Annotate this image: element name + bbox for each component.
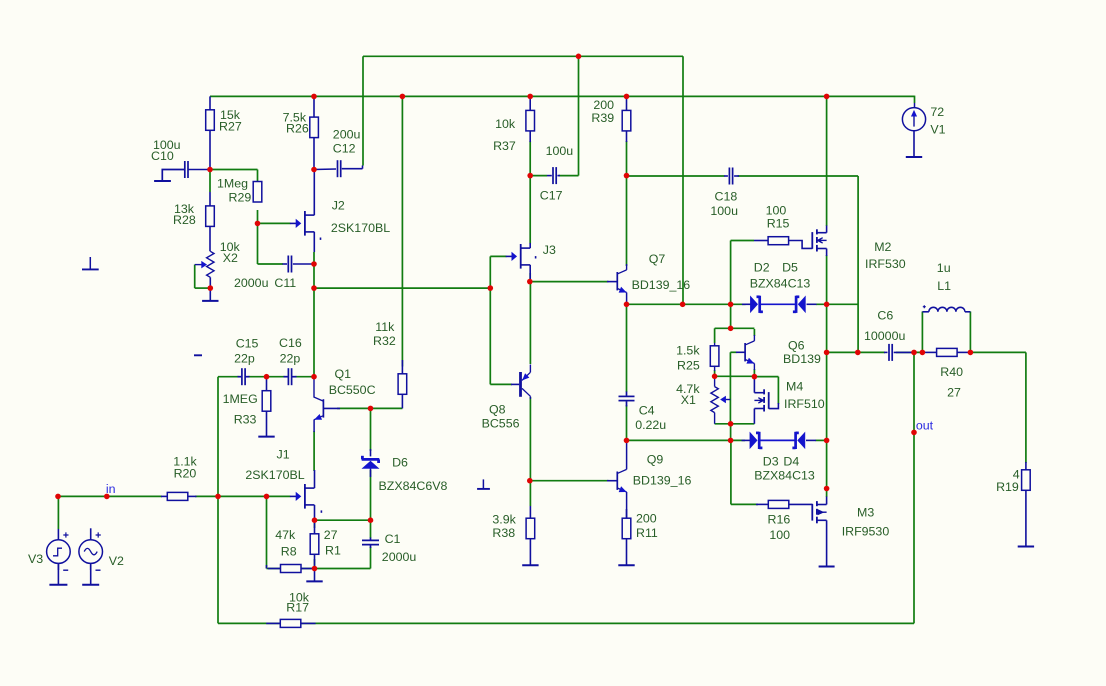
resistor R27 15k: [206, 110, 215, 131]
lead X2 bottom: [209, 277, 211, 288]
svg-text:BC550C: BC550C: [329, 383, 376, 397]
lead R8 left riser tip: [266, 565, 268, 569]
svg-text:L1: L1: [937, 279, 951, 293]
lead Q7 collector: [626, 264, 628, 270]
lead Q8 base: [511, 383, 519, 385]
node top-bus drop zener row: [680, 302, 686, 308]
capacitor C16 22p: [287, 368, 289, 385]
node Q7 emitter zener row: [624, 302, 630, 308]
node R1/R8/ground: [312, 566, 318, 572]
lead D6 bottom: [370, 469, 372, 478]
wire node to C1: [370, 520, 372, 538]
resistor R38 3.9k: [526, 518, 535, 539]
wire Q8 base: [490, 383, 512, 385]
node C16/Q1 collector: [311, 374, 317, 380]
lead X1 bottom: [714, 413, 716, 424]
wire L1 left leg: [921, 312, 923, 353]
wire R37 to C17 node: [529, 141, 531, 176]
node L1 left: [920, 350, 926, 356]
svg-text:0.22u: 0.22u: [635, 418, 666, 432]
lead C16 right: [292, 376, 297, 378]
node J1 source: [312, 517, 318, 523]
lead Q7 base: [607, 281, 617, 283]
terminal C10 input stub: [154, 180, 171, 182]
lead C15 right: [246, 376, 250, 378]
node R8 riser input row: [264, 494, 270, 500]
diode D5 BZX84C13: [798, 296, 805, 312]
svg-text:22p: 22p: [280, 352, 301, 366]
wire C15 to node: [249, 376, 267, 378]
svg-text:R29: R29: [229, 191, 252, 205]
svg-text:M3: M3: [857, 506, 874, 520]
reference mark near C10: [89, 257, 91, 269]
lead C10 left: [162, 170, 185, 182]
node in label: [104, 494, 110, 500]
node M2 source zener row: [824, 302, 830, 308]
ground R38: [529, 539, 531, 566]
wire Q6 emitter down: [753, 369, 755, 377]
node C15/C16/R33: [264, 374, 270, 380]
svg-text:Q1: Q1: [335, 367, 352, 381]
lead C12 right: [342, 168, 363, 170]
node pot bottom loop: [728, 421, 734, 427]
wire C18 node to Q7 collector: [626, 176, 628, 266]
svg-text:V2: V2: [109, 554, 124, 568]
svg-text:1u: 1u: [937, 261, 951, 275]
lead C6 left: [884, 351, 888, 353]
wire C17 right to drop: [559, 175, 579, 177]
lead R15 to M2 gate: [789, 241, 813, 249]
svg-text:R19: R19: [996, 480, 1019, 494]
svg-text:R16: R16: [768, 513, 791, 527]
node rail R37: [527, 94, 533, 100]
lead C12 left: [314, 168, 336, 171]
wire J3 source to Q7 base: [530, 281, 608, 283]
J1 pin mark: [321, 510, 323, 512]
wire X2 wiper loop: [194, 265, 196, 289]
lead M2 source down: [826, 249, 828, 257]
lead C4 top: [626, 392, 628, 396]
wire loop to zener row 2: [730, 424, 732, 441]
wire R1 to ground node: [314, 559, 316, 569]
wire node to C16: [267, 376, 285, 378]
svg-text:BD139_16: BD139_16: [633, 473, 692, 487]
lead M4 drain up: [753, 377, 755, 393]
wire to R16: [731, 503, 758, 505]
svg-text:BZX84C6V8: BZX84C6V8: [379, 479, 448, 493]
reference mark near Q8: [482, 479, 484, 489]
V3 plus: [63, 532, 68, 537]
wire to R25: [714, 328, 716, 343]
lead Q1 collector: [313, 377, 315, 398]
potentiometer X1 4.7k: [711, 387, 718, 413]
lead Q6 collector: [753, 335, 755, 341]
lead R32 bottom: [401, 394, 403, 409]
lead M2 drain up: [826, 226, 828, 233]
wire node down to R38: [529, 481, 531, 506]
lead J2 drain riser: [313, 170, 315, 216]
wire down to R19: [1025, 352, 1027, 463]
svg-text:R25: R25: [677, 359, 700, 373]
wire L1 right leg: [969, 312, 971, 353]
lead C15 left: [238, 376, 242, 378]
node Q8 collector/Q9 base: [527, 478, 533, 484]
node V3 input row: [55, 494, 61, 500]
svg-text:V3: V3: [28, 552, 43, 566]
svg-text:100: 100: [769, 528, 790, 542]
wire C17 left lead: [530, 175, 547, 177]
lead R15 left: [754, 240, 768, 242]
ground V2: [90, 563, 92, 584]
node R15 drop zener row: [728, 302, 734, 308]
wire J2 gate: [258, 222, 291, 224]
wire J1 source node to D6/C1 node: [315, 519, 371, 521]
lead R25 bottom: [714, 367, 716, 371]
node R39/C18/Q7: [624, 173, 630, 179]
svg-text:R11: R11: [636, 526, 658, 540]
transistor Q7 BD139_16: [616, 272, 618, 290]
node R37/C17: [527, 173, 533, 179]
svg-text:IRF510: IRF510: [784, 397, 825, 411]
transistor Q6 BD139: [744, 343, 746, 361]
node R29/J2 gate: [255, 221, 261, 227]
svg-text:C11: C11: [274, 276, 296, 290]
lead R28 top: [209, 192, 211, 206]
wire rail to M2 drain: [826, 96, 828, 226]
source V2: [79, 540, 103, 564]
lead J1 source: [314, 505, 316, 520]
V2 minus: [96, 569, 101, 571]
lead J1 drain: [314, 470, 316, 488]
lead Q1 base: [323, 407, 340, 409]
lead Q1 emitter: [313, 420, 315, 433]
lead C1 top: [370, 538, 372, 540]
wire C17 drop from top bus: [578, 56, 580, 175]
node output row C18 drop: [855, 350, 861, 356]
node row/Q8 branch: [488, 285, 494, 291]
wire node to Q9 base: [530, 480, 608, 482]
wire down to R29: [257, 170, 259, 183]
lead M4 gate elbow: [769, 403, 779, 409]
svg-text:IRF9530: IRF9530: [842, 524, 890, 538]
svg-text:C17: C17: [540, 189, 563, 203]
resistor R39 200: [622, 110, 631, 130]
svg-text:C18: C18: [715, 190, 738, 204]
wire M4 gate loop right: [777, 377, 779, 404]
resistor R29 1Meg: [253, 182, 262, 203]
lead R20 right: [188, 495, 197, 497]
lead C6 right: [894, 351, 914, 353]
lead R19 top: [1025, 462, 1027, 470]
svg-text:R37: R37: [493, 139, 516, 153]
svg-text:R40: R40: [940, 365, 963, 379]
ground V1: [913, 131, 915, 157]
wire C6 to L1: [896, 351, 922, 353]
lead R26 bottom: [313, 138, 315, 170]
wire C18 to M2 source drop: [738, 175, 859, 177]
node Vbe multiplier top: [728, 326, 734, 332]
wire M2 source down: [826, 255, 828, 304]
svg-text:C6: C6: [877, 309, 893, 323]
wire zener row D2 left: [627, 303, 746, 305]
wire Q6 collector up: [753, 329, 755, 336]
svg-text:2SK170BL: 2SK170BL: [331, 221, 390, 235]
resistor R32 11k: [398, 374, 407, 395]
wire J1 gate node down to R8: [266, 496, 268, 568]
svg-text:Q8: Q8: [489, 403, 506, 417]
wire to R8: [267, 568, 282, 570]
source V1 72V: [902, 108, 925, 131]
reference mark near R33: [194, 354, 202, 356]
wire R29 to J2 gate node: [257, 210, 259, 223]
svg-text:C16: C16: [279, 336, 302, 350]
lead R37 bottom: [529, 131, 531, 142]
lead C18 right: [734, 175, 739, 177]
lead Q7 emitter: [626, 293, 628, 305]
lead X1 top: [714, 376, 716, 386]
wire zener row2 to R16: [730, 440, 732, 504]
lead J2 source riser: [313, 232, 315, 252]
svg-text:C1: C1: [385, 532, 401, 546]
lead R38 top: [529, 506, 531, 518]
node Q6 emitter/M4: [752, 374, 758, 380]
lead R37 top: [529, 96, 531, 110]
svg-text:200u: 200u: [333, 128, 361, 142]
lead D2 left: [742, 303, 750, 305]
node top bus / C17 drop: [576, 54, 582, 60]
wire gate node down to C11: [257, 223, 259, 264]
capacitor C18 100u: [728, 168, 730, 185]
svg-text:out: out: [916, 419, 934, 433]
capacitor C6 10000u: [888, 344, 890, 361]
lead R16 to M3 gate: [789, 503, 813, 505]
node C10/R27/R28: [207, 167, 213, 173]
diode D4 BZX84C13: [798, 432, 805, 448]
svg-text:R26: R26: [286, 122, 309, 136]
lead M3 source down: [826, 520, 828, 566]
svg-text:100u: 100u: [546, 144, 574, 158]
svg-text:200: 200: [593, 98, 614, 112]
svg-text:M2: M2: [874, 240, 891, 254]
diode D2 BZX84C13: [750, 296, 757, 312]
wire R8 to gnd node: [301, 568, 315, 570]
wire R25 to node: [714, 370, 716, 376]
capacitor C11 2000u: [287, 256, 289, 273]
transistor M2 IRF530: [816, 229, 818, 234]
wire zener row2 right: [816, 439, 827, 441]
lead R39 bottom: [626, 131, 628, 142]
wire down to Q8 emitter: [529, 282, 531, 364]
svg-text:2000u: 2000u: [382, 550, 417, 564]
lead C11 left: [283, 263, 288, 265]
J3 pin mark: [535, 256, 537, 258]
svg-text:27: 27: [324, 528, 338, 542]
transistor M4 IRF510: [763, 389, 765, 394]
lead J3 source: [529, 265, 531, 282]
svg-text:D4: D4: [783, 455, 799, 469]
svg-text:D2: D2: [754, 261, 770, 275]
svg-text:Q7: Q7: [649, 252, 666, 266]
svg-text:IRF530: IRF530: [865, 257, 906, 271]
resistor R20 1.1k: [167, 492, 188, 500]
svg-text:3.9k: 3.9k: [492, 513, 516, 527]
ground X2: [209, 288, 211, 301]
capacitor C10 100u: [184, 161, 186, 178]
V3 step symbol: [53, 548, 62, 556]
wire C4 to zener row 2: [626, 405, 628, 440]
wire R1 gnd node to C1 bottom: [315, 568, 371, 570]
wire D6 to C1 node: [370, 470, 372, 520]
wire pot bottom loop: [715, 423, 755, 425]
svg-text:72: 72: [930, 105, 944, 119]
resistor R8 47k: [281, 565, 302, 573]
X1 wiper arrow: [726, 399, 731, 401]
svg-text:R38: R38: [492, 526, 515, 540]
lead R11 top: [626, 509, 628, 518]
lead Q9 collector: [626, 440, 628, 469]
transistor Q1 BC550C: [322, 399, 324, 417]
V1 arrow shaft: [913, 113, 915, 127]
wire R15 left drop through zener row: [730, 241, 732, 329]
ground R11: [626, 539, 628, 566]
node rail R39: [624, 94, 630, 100]
lead C11 right: [293, 263, 314, 265]
lead R27 bottom: [209, 130, 211, 170]
lead R28 to X2: [209, 226, 211, 251]
svg-text:C15: C15: [236, 337, 259, 351]
lead R8 right: [301, 568, 315, 570]
svg-text:47k: 47k: [275, 528, 296, 542]
lead C16 left: [284, 376, 289, 378]
wire R25 node to M4 drain node: [715, 375, 755, 377]
svg-text:10000u: 10000u: [864, 329, 905, 343]
L1 polarity mark: [923, 305, 926, 308]
svg-text:C4: C4: [639, 404, 655, 418]
wire top bus: [363, 55, 683, 57]
lead C12 right elbow: [362, 166, 364, 169]
svg-text:X1: X1: [681, 393, 696, 407]
lead R40 left: [922, 351, 936, 353]
node out label: [911, 430, 917, 436]
lead R20 left: [161, 495, 167, 497]
svg-text:BC556: BC556: [482, 417, 520, 431]
lead R17 right: [301, 622, 316, 624]
lead R1 top: [314, 520, 316, 534]
wire node row to J3/Q8 branch: [314, 287, 490, 289]
svg-text:22p: 22p: [234, 352, 255, 366]
transistor M3 IRF9530: [816, 501, 818, 506]
node D6/C1: [368, 517, 374, 523]
lead Q8 collector: [529, 396, 531, 399]
ground V3: [57, 563, 59, 584]
svg-text:R17: R17: [286, 601, 309, 615]
lead C18 left: [724, 175, 728, 177]
capacitor C1 2000u: [362, 539, 379, 541]
svg-text:100: 100: [766, 204, 787, 218]
resistor R11 200: [622, 518, 631, 539]
svg-text:R1: R1: [325, 544, 341, 558]
wire C10 node to R29 top: [210, 169, 258, 171]
svg-text:J3: J3: [543, 243, 556, 257]
transistor Q9 BD139_16: [616, 472, 618, 490]
X2 wiper arrow: [195, 264, 202, 266]
lead V1 top: [914, 103, 916, 108]
wire +V rail: [210, 95, 915, 97]
svg-text:D3: D3: [763, 455, 779, 469]
lead Q9 base: [607, 480, 617, 482]
svg-text:D5: D5: [782, 261, 798, 275]
wire rail drop to R32: [401, 96, 403, 366]
lead R27 top: [209, 96, 211, 110]
lead C1 bottom: [370, 545, 372, 548]
resistor R15 100: [768, 237, 789, 245]
lead R33 top: [266, 377, 268, 391]
wire to C11 left: [258, 263, 284, 265]
svg-text:1.5k: 1.5k: [676, 344, 700, 358]
V3 minus: [63, 569, 68, 571]
svg-text:R20: R20: [174, 467, 197, 481]
lead D6 top: [370, 449, 372, 456]
lead R1 bottom: [314, 554, 316, 568]
svg-text:Q9: Q9: [647, 452, 664, 466]
resistor R16 100: [768, 500, 789, 508]
ground R33: [266, 411, 268, 437]
ground M3: [826, 565, 828, 567]
lead C17 right: [557, 175, 560, 177]
svg-text:1MEG: 1MEG: [223, 392, 258, 406]
wire zener row D5 right: [816, 303, 858, 305]
wire node down to D6: [370, 408, 372, 451]
wire J2 source to C11/C15 nodes: [313, 252, 315, 288]
wire Q6 base: [730, 351, 736, 353]
svg-text:BZX84C13: BZX84C13: [750, 276, 811, 290]
capacitor C17 100u: [552, 167, 554, 184]
svg-text:in: in: [106, 482, 116, 496]
svg-text:11k: 11k: [375, 320, 395, 334]
lead C10 right: [188, 169, 210, 171]
svg-text:Q6: Q6: [788, 339, 805, 353]
wire R39 to C18 node: [626, 141, 628, 176]
svg-text:200: 200: [636, 512, 657, 526]
resistor R26 7.5k: [310, 117, 319, 138]
lead Q8 emitter: [529, 365, 531, 373]
wire drop to output row: [857, 176, 859, 352]
svg-text:27: 27: [947, 386, 961, 400]
lead J3 drain: [529, 243, 531, 248]
lead R32 top: [401, 360, 403, 374]
wire to R19 branch: [970, 351, 1026, 353]
inductor L1 1u: [922, 311, 929, 313]
svg-text:R39: R39: [591, 111, 614, 125]
svg-text:R28: R28: [173, 213, 196, 227]
svg-text:R8: R8: [281, 545, 297, 559]
svg-text:10k: 10k: [495, 117, 516, 131]
lead R8 left: [268, 568, 281, 570]
wire top bus right drop to zener row: [682, 56, 684, 304]
wire J3 gate: [490, 255, 506, 257]
wire zener row2 left: [627, 439, 746, 441]
svg-text:C12: C12: [333, 142, 356, 156]
lead M3 drain up: [826, 497, 828, 505]
ground R1/R8: [314, 569, 316, 582]
svg-text:2000u: 2000u: [234, 276, 269, 290]
svg-text:D6: D6: [392, 456, 408, 470]
wire rail corner to V1: [914, 96, 916, 103]
wire between D3 D4: [760, 439, 795, 441]
wire down to V3: [57, 496, 59, 529]
wire between D2 D5: [761, 303, 796, 305]
wire R20 to J1 gate: [195, 495, 290, 497]
